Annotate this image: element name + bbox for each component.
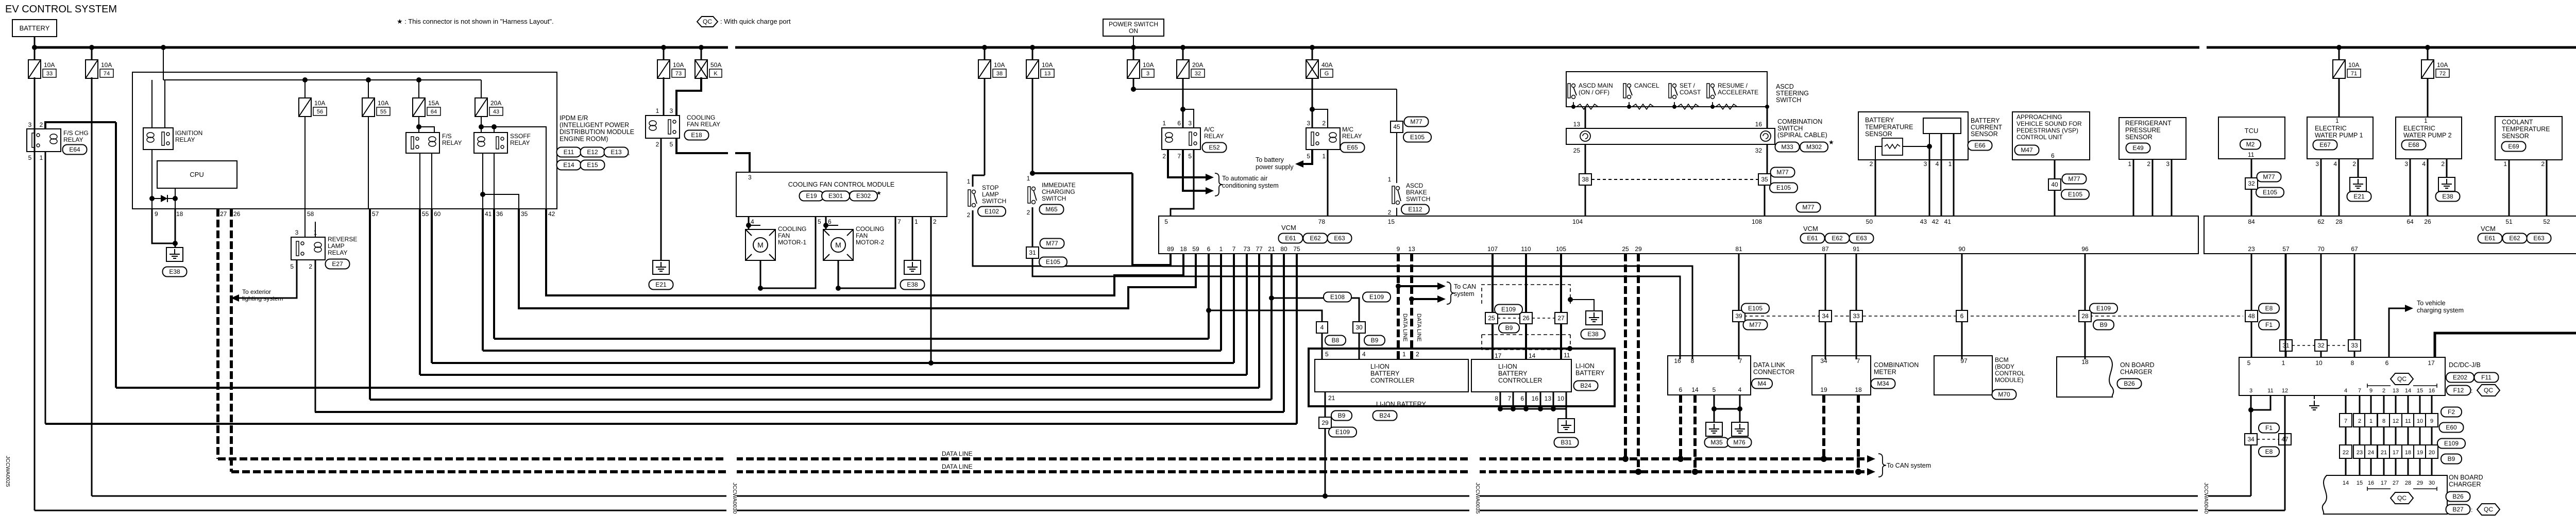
svg-text:5: 5 (1307, 153, 1310, 160)
svg-text:11: 11 (1564, 352, 1570, 359)
svg-text:2: 2 (1027, 209, 1030, 216)
svg-text:DISTRIBUTION MODULE: DISTRIBUTION MODULE (560, 128, 634, 136)
svg-text:10A: 10A (44, 61, 55, 69)
svg-text:2: 2 (1870, 160, 1873, 168)
svg-text:E61: E61 (1285, 235, 1296, 242)
svg-text:32: 32 (2248, 180, 2255, 187)
svg-text:29: 29 (2417, 480, 2423, 486)
svg-text:2: 2 (656, 141, 659, 148)
svg-text:10A: 10A (994, 61, 1005, 69)
svg-text:3: 3 (2166, 160, 2170, 168)
svg-text:LI-ION: LI-ION (1370, 363, 1389, 370)
svg-text:DC/DC-J/B: DC/DC-J/B (2449, 361, 2481, 369)
svg-text:M: M (835, 241, 841, 249)
svg-text:1: 1 (1162, 120, 1166, 127)
svg-text:2: 2 (933, 218, 937, 225)
svg-text:(SPIRAL CABLE): (SPIRAL CABLE) (1777, 131, 1827, 139)
svg-text:17: 17 (1495, 352, 1502, 359)
svg-text:22: 22 (2343, 450, 2349, 456)
svg-text:LAMP: LAMP (328, 242, 345, 250)
svg-text:E302: E302 (856, 192, 871, 200)
svg-text:2: 2 (1322, 120, 1326, 127)
svg-text:BATTERY: BATTERY (1865, 117, 1894, 124)
svg-text:B9: B9 (1371, 337, 1379, 344)
svg-text:1: 1 (2335, 117, 2339, 124)
svg-text:10A: 10A (1042, 61, 1053, 69)
svg-text:COOLING FAN CONTROL MODULE: COOLING FAN CONTROL MODULE (788, 181, 895, 188)
svg-text:16: 16 (2429, 388, 2435, 394)
svg-text:E105: E105 (2068, 191, 2082, 198)
svg-text::: : (2471, 387, 2472, 394)
svg-text:8: 8 (2351, 359, 2354, 367)
svg-text:27: 27 (1557, 315, 1565, 322)
svg-text:108: 108 (1752, 218, 1762, 225)
svg-text:BATTERY: BATTERY (20, 24, 50, 32)
svg-text:FAN: FAN (856, 232, 868, 239)
svg-text:14: 14 (2343, 480, 2349, 486)
svg-text:E15: E15 (587, 161, 598, 169)
svg-text:JCCWA0035: JCCWA0035 (1475, 483, 1481, 514)
svg-text:50: 50 (1866, 218, 1873, 225)
svg-text:45: 45 (1393, 123, 1400, 130)
svg-text:4: 4 (751, 218, 754, 225)
svg-text:system: system (1454, 290, 1475, 297)
svg-text:,: , (628, 149, 630, 156)
svg-text:E18: E18 (691, 131, 702, 139)
svg-text:78: 78 (1318, 218, 1326, 225)
svg-text:RELAY: RELAY (175, 136, 195, 143)
svg-text:1: 1 (1388, 176, 1392, 183)
svg-text:18: 18 (176, 210, 183, 218)
svg-text:F/S: F/S (442, 133, 452, 140)
svg-text:67: 67 (2351, 245, 2358, 253)
svg-text:4: 4 (1738, 386, 1742, 393)
svg-text:97: 97 (1960, 357, 1968, 365)
svg-text:16: 16 (2368, 480, 2374, 486)
svg-text:SWITCH: SWITCH (1406, 195, 1430, 203)
svg-text:M77: M77 (1046, 240, 1058, 247)
svg-text:SENSOR: SENSOR (1865, 130, 1892, 138)
svg-text:F11: F11 (2481, 374, 2492, 381)
svg-text:M76: M76 (1733, 439, 1745, 446)
svg-text:29: 29 (1321, 419, 1329, 426)
svg-text:COOLING: COOLING (687, 114, 715, 121)
svg-text:★: ★ (1828, 139, 1834, 146)
svg-text:43: 43 (493, 109, 499, 115)
svg-text:21: 21 (2381, 450, 2387, 456)
svg-text:2: 2 (2541, 160, 2545, 168)
svg-text:2: 2 (967, 211, 971, 219)
svg-text:COOLING: COOLING (778, 225, 806, 233)
svg-text:SWITCH: SWITCH (1777, 125, 1803, 132)
svg-text:55: 55 (380, 109, 386, 115)
svg-text:64: 64 (2406, 218, 2414, 225)
svg-text:VCM: VCM (2481, 225, 2496, 233)
svg-text:6: 6 (1207, 245, 1211, 253)
svg-text:To CAN: To CAN (1454, 283, 1476, 290)
svg-text:7: 7 (1232, 245, 1236, 253)
svg-text:6: 6 (828, 218, 832, 225)
svg-text:91: 91 (1853, 245, 1860, 253)
svg-text:13: 13 (1408, 245, 1415, 253)
svg-text:E61: E61 (1807, 235, 1818, 242)
svg-text:11: 11 (2405, 418, 2411, 424)
svg-text:DATA LINE: DATA LINE (1416, 313, 1422, 342)
svg-text:E202: E202 (2453, 374, 2467, 381)
svg-text:6: 6 (2051, 152, 2055, 159)
svg-text:7: 7 (1177, 153, 1181, 160)
svg-text:6: 6 (1177, 120, 1181, 127)
svg-text:CURRENT: CURRENT (1971, 124, 2002, 131)
svg-text:MODULE): MODULE) (1995, 376, 2023, 384)
svg-text:40A: 40A (1321, 61, 1332, 69)
svg-text:QC: QC (2397, 494, 2406, 502)
svg-text:RELAY: RELAY (442, 139, 462, 146)
svg-text:B9: B9 (2448, 455, 2455, 462)
svg-text:FAN RELAY: FAN RELAY (687, 121, 720, 128)
svg-text:E63: E63 (1856, 235, 1867, 242)
svg-text:M34: M34 (1877, 380, 1889, 387)
svg-text:SWITCH: SWITCH (982, 197, 1006, 205)
svg-text:3: 3 (295, 229, 299, 236)
svg-text:E109: E109 (1369, 293, 1384, 301)
svg-text:SENSOR: SENSOR (2125, 134, 2153, 141)
svg-text:36: 36 (496, 210, 503, 218)
svg-text:9: 9 (2430, 418, 2433, 424)
svg-text:14: 14 (1691, 386, 1699, 393)
svg-text:M77: M77 (2068, 175, 2080, 183)
svg-text:2: 2 (2382, 388, 2385, 394)
svg-text:3: 3 (2404, 160, 2408, 168)
svg-text:50A: 50A (710, 61, 721, 69)
svg-text:CANCEL: CANCEL (1634, 82, 1659, 89)
svg-text:10A: 10A (378, 100, 388, 107)
svg-text:B26: B26 (2124, 380, 2135, 387)
svg-text:ASCD MAIN: ASCD MAIN (1579, 82, 1613, 89)
svg-text:F12: F12 (2453, 387, 2464, 394)
svg-text:To battery: To battery (1256, 156, 1284, 163)
svg-text:F2: F2 (2448, 408, 2455, 416)
svg-text:E105: E105 (1410, 134, 1425, 141)
svg-text:B24: B24 (1580, 382, 1591, 389)
svg-text:ENGINE ROOM): ENGINE ROOM) (560, 136, 608, 143)
svg-text:E105: E105 (1046, 258, 1060, 266)
svg-text:57: 57 (2282, 245, 2290, 253)
svg-text:A/C: A/C (1204, 126, 1214, 133)
svg-text:B9: B9 (1505, 324, 1513, 332)
svg-text:E105: E105 (1748, 305, 1762, 312)
svg-text:6: 6 (1960, 312, 1964, 320)
svg-text:LI-ION: LI-ION (1575, 362, 1595, 370)
svg-text:CPU: CPU (190, 171, 204, 178)
svg-text:24: 24 (2368, 450, 2374, 456)
svg-text:★: ★ (876, 190, 882, 196)
svg-text:26: 26 (2424, 218, 2431, 225)
svg-text:ELECTRIC: ELECTRIC (2403, 125, 2435, 132)
svg-text:2: 2 (40, 121, 43, 128)
svg-text:conditioning system: conditioning system (1222, 182, 1279, 189)
svg-text:TCU: TCU (2245, 127, 2259, 135)
svg-text:10A: 10A (314, 100, 325, 107)
svg-text:WATER PUMP 2: WATER PUMP 2 (2403, 132, 2452, 139)
svg-text:E8: E8 (2265, 448, 2273, 455)
svg-text:17: 17 (2428, 359, 2435, 367)
svg-text:105: 105 (1556, 245, 1566, 253)
svg-text:DATA LINK: DATA LINK (1753, 361, 1786, 369)
svg-text:64: 64 (431, 109, 437, 115)
svg-text:APPROACHING: APPROACHING (2016, 113, 2062, 121)
svg-text:RELAY: RELAY (63, 136, 83, 143)
svg-text:80: 80 (1280, 245, 1287, 253)
svg-text:E67: E67 (2319, 141, 2331, 148)
svg-text:IPDM E/R: IPDM E/R (560, 114, 588, 122)
svg-text:To CAN system: To CAN system (1887, 462, 1931, 469)
svg-text:9: 9 (1397, 245, 1400, 253)
svg-text:power supply: power supply (1256, 163, 1294, 171)
svg-text:E19: E19 (806, 192, 817, 200)
svg-text:41: 41 (1944, 218, 1952, 225)
svg-text:M77: M77 (2263, 173, 2275, 180)
svg-text:K: K (714, 71, 718, 77)
svg-text:6: 6 (1679, 386, 1683, 393)
svg-text:15: 15 (1388, 218, 1395, 225)
svg-text:MOTOR-2: MOTOR-2 (856, 239, 884, 246)
svg-text:73: 73 (1243, 245, 1250, 253)
svg-text:40: 40 (2051, 181, 2058, 188)
svg-text:9: 9 (2369, 388, 2372, 394)
svg-text:E21: E21 (655, 281, 667, 288)
svg-text:60: 60 (434, 210, 441, 218)
svg-text:M4: M4 (1758, 380, 1767, 387)
svg-text:EV CONTROL SYSTEM: EV CONTROL SYSTEM (5, 4, 117, 15)
svg-text:RELAY: RELAY (1342, 133, 1362, 140)
svg-text:21: 21 (1328, 394, 1335, 402)
svg-text:STOP: STOP (982, 184, 998, 191)
svg-text:35: 35 (521, 210, 528, 218)
svg-text:COAST: COAST (1680, 89, 1701, 96)
svg-text:SENSOR: SENSOR (2502, 133, 2529, 140)
svg-text:1: 1 (1322, 153, 1326, 160)
svg-text:3: 3 (1146, 71, 1149, 77)
svg-text:TEMPERATURE: TEMPERATURE (2502, 126, 2550, 133)
svg-text:IGNITION: IGNITION (175, 129, 202, 137)
svg-text:17: 17 (2393, 450, 2399, 456)
svg-text:1: 1 (2424, 117, 2428, 124)
svg-text:2: 2 (2358, 418, 2361, 424)
svg-text:E14: E14 (563, 161, 574, 169)
svg-text:21: 21 (1268, 245, 1275, 253)
svg-text:5: 5 (1713, 386, 1716, 393)
svg-text:7: 7 (897, 218, 901, 225)
svg-text:30: 30 (1355, 324, 1363, 331)
svg-text:E62: E62 (2509, 235, 2520, 242)
svg-text:18: 18 (1180, 245, 1187, 253)
svg-text:72: 72 (2439, 71, 2446, 77)
svg-text:2: 2 (1416, 351, 1419, 358)
svg-text:B24: B24 (1379, 412, 1391, 419)
svg-text:34: 34 (1822, 312, 1829, 320)
svg-text:B31: B31 (1561, 439, 1572, 446)
svg-text:43: 43 (1920, 218, 1927, 225)
svg-text::: : (2471, 506, 2472, 514)
svg-text:M2: M2 (2246, 141, 2255, 148)
svg-text:16: 16 (1674, 357, 1681, 365)
svg-text:1: 1 (1219, 245, 1223, 253)
svg-text:32: 32 (2317, 342, 2325, 349)
svg-text:3: 3 (1924, 160, 1927, 168)
svg-text:CONTROL: CONTROL (1995, 370, 2025, 377)
svg-text:90: 90 (1958, 245, 1965, 253)
svg-text:(ON / OFF): (ON / OFF) (1579, 89, 1609, 96)
svg-text:E49: E49 (2132, 144, 2144, 152)
svg-text:E112: E112 (1408, 206, 1422, 213)
svg-text:RELAY: RELAY (510, 139, 530, 146)
svg-text:10A: 10A (1143, 61, 1154, 69)
svg-text:110: 110 (1521, 245, 1531, 253)
svg-text:LI-ION: LI-ION (1498, 363, 1517, 370)
svg-text:BATTERY: BATTERY (1971, 117, 2000, 124)
svg-text:51: 51 (2505, 218, 2513, 225)
svg-text:ASCD: ASCD (1776, 83, 1794, 90)
svg-text:57: 57 (372, 210, 379, 218)
svg-text:E64: E64 (69, 146, 80, 153)
svg-text:BATTERY: BATTERY (1498, 370, 1528, 377)
svg-text:WATER PUMP 1: WATER PUMP 1 (2315, 132, 2363, 139)
svg-text:74: 74 (104, 71, 110, 77)
svg-text:7: 7 (1857, 357, 1860, 365)
svg-text:To automatic air: To automatic air (1222, 175, 1267, 182)
svg-text:E38: E38 (169, 268, 180, 275)
svg-text:28: 28 (2405, 480, 2411, 486)
svg-text:COMBINATION: COMBINATION (1777, 118, 1822, 125)
svg-text:13: 13 (2393, 388, 2399, 394)
svg-text:IMMEDIATE: IMMEDIATE (1042, 181, 1076, 189)
svg-text:ASCD: ASCD (1406, 182, 1423, 189)
svg-text:E38: E38 (907, 281, 918, 288)
svg-text:14: 14 (1529, 352, 1536, 359)
svg-text:REFRIGERANT: REFRIGERANT (2125, 120, 2172, 127)
svg-text:QC: QC (2484, 387, 2493, 394)
svg-text:SWITCH: SWITCH (1776, 96, 1801, 104)
svg-text:32: 32 (1195, 71, 1201, 77)
svg-text:28: 28 (2081, 312, 2089, 320)
svg-text:B9: B9 (1338, 412, 1346, 419)
svg-text:DATA LINE: DATA LINE (1402, 313, 1408, 342)
svg-text:70: 70 (2317, 245, 2325, 253)
svg-text:14: 14 (2405, 388, 2411, 394)
svg-text:20A: 20A (490, 100, 501, 107)
svg-text:B8: B8 (1332, 337, 1340, 344)
svg-text:PRESSURE: PRESSURE (2125, 127, 2161, 134)
svg-text:F1: F1 (2265, 321, 2273, 328)
svg-text:3: 3 (2315, 160, 2319, 168)
svg-text:M70: M70 (1998, 391, 2010, 398)
svg-text:59: 59 (1192, 245, 1199, 253)
svg-text:87: 87 (1822, 245, 1829, 253)
svg-text:CONTROL UNIT: CONTROL UNIT (2016, 134, 2063, 141)
svg-text:SSOFF: SSOFF (510, 133, 531, 140)
svg-text:5: 5 (818, 218, 821, 225)
svg-text:6: 6 (1520, 395, 1524, 402)
svg-text:32: 32 (1755, 147, 1762, 154)
svg-text:20A: 20A (1192, 61, 1203, 69)
svg-text:19: 19 (1820, 386, 1827, 393)
svg-text:M77: M77 (1410, 118, 1422, 125)
svg-text:M/C: M/C (1342, 126, 1353, 133)
svg-text:E66: E66 (1974, 142, 1986, 149)
svg-text:38: 38 (1582, 176, 1589, 183)
svg-text:5: 5 (670, 141, 673, 148)
svg-text:E109: E109 (2096, 305, 2111, 312)
svg-text:10: 10 (2315, 359, 2323, 367)
svg-text:11: 11 (2248, 151, 2255, 158)
svg-text:4: 4 (1362, 351, 1366, 358)
svg-text:1: 1 (1402, 351, 1406, 358)
svg-text:8: 8 (1691, 357, 1694, 365)
svg-text:RESUME /: RESUME / (1718, 82, 1748, 89)
svg-text:3: 3 (748, 174, 752, 181)
svg-text:5: 5 (1164, 218, 1168, 225)
svg-text:CHARGING: CHARGING (1042, 188, 1075, 195)
svg-text:4: 4 (2344, 388, 2347, 394)
svg-text:4: 4 (2422, 160, 2426, 168)
svg-text:5: 5 (2247, 359, 2251, 367)
svg-text:COOLING: COOLING (856, 225, 884, 233)
svg-text:M77: M77 (1802, 204, 1815, 211)
svg-text:E13: E13 (611, 148, 622, 156)
svg-text:16: 16 (1532, 395, 1539, 402)
svg-text:104: 104 (1572, 218, 1583, 225)
svg-text:15A: 15A (428, 100, 439, 107)
svg-text:LI-ION BATTERY: LI-ION BATTERY (1376, 401, 1426, 408)
svg-text:19: 19 (2417, 450, 2423, 456)
svg-text:13: 13 (1545, 395, 1552, 402)
svg-text:G: G (1325, 71, 1329, 77)
svg-text:30: 30 (2429, 480, 2435, 486)
svg-text:E38: E38 (1587, 330, 1599, 338)
svg-text:18: 18 (1855, 386, 1862, 393)
svg-text:F/S CHG: F/S CHG (63, 129, 89, 137)
svg-text:5: 5 (1188, 153, 1192, 160)
svg-text:E62: E62 (1310, 235, 1321, 242)
svg-text:26: 26 (233, 210, 241, 218)
svg-text:CHARGER: CHARGER (2449, 481, 2481, 488)
svg-text:SET /: SET / (1680, 82, 1695, 89)
svg-text:4: 4 (1936, 160, 1939, 168)
svg-text:25: 25 (1573, 147, 1581, 154)
svg-text:12: 12 (2282, 388, 2288, 394)
svg-text:E109: E109 (1501, 306, 1516, 313)
svg-text:ON: ON (1129, 27, 1138, 35)
svg-text:48: 48 (2248, 312, 2255, 320)
svg-text:E63: E63 (1334, 235, 1345, 242)
svg-text:39: 39 (1735, 312, 1742, 320)
svg-text:25: 25 (1622, 245, 1629, 253)
svg-text:41: 41 (485, 210, 492, 218)
svg-text:COMBINATION: COMBINATION (1874, 361, 1919, 369)
svg-text:F1: F1 (2265, 424, 2273, 432)
svg-text:18: 18 (2081, 358, 2089, 366)
svg-text:BATTERY: BATTERY (1370, 370, 1400, 377)
svg-text:M47: M47 (2021, 146, 2033, 154)
svg-text:15: 15 (2417, 388, 2423, 394)
svg-text:2: 2 (2441, 160, 2445, 168)
svg-text:13: 13 (1044, 71, 1050, 77)
svg-text:M302: M302 (1806, 143, 1822, 151)
svg-text:4: 4 (1320, 324, 1324, 331)
svg-text:1: 1 (914, 218, 918, 225)
svg-text:1: 1 (2369, 418, 2372, 424)
